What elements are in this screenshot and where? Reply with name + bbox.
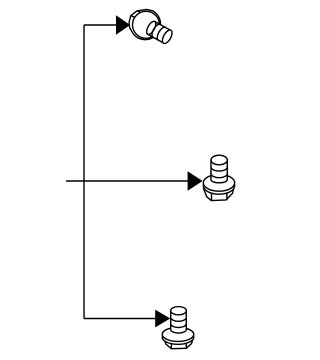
- shaft thread ring 2: [211, 174, 227, 178]
- wire middle branch: [66, 180, 189, 182]
- flange face circle: [133, 11, 160, 38]
- shaft of top bolt: [145, 20, 174, 45]
- shaft body: [211, 160, 227, 180]
- bolt top (angled flange bolt): [129, 9, 174, 45]
- shaft body: [171, 311, 187, 330]
- arrow to middle bolt: [188, 171, 203, 191]
- shaft base arc: [211, 180, 227, 183]
- shaft neck ring: [145, 20, 158, 36]
- shaft body: [148, 21, 171, 43]
- shaft edge lines: [148, 21, 171, 43]
- flange face: [162, 327, 194, 341]
- bolt bottom (upright flange bolt): [162, 307, 194, 349]
- wire vertical trunk: [83, 25, 85, 319]
- shaft thread ring 2: [171, 324, 187, 328]
- shaft thread ring 1: [211, 167, 227, 171]
- shaft edge lines: [171, 311, 187, 330]
- shaft base arc: [171, 330, 187, 334]
- hex facet edge right: [185, 344, 187, 348]
- hex head silhouette with flange rim: [129, 9, 160, 39]
- shaft end face: [160, 28, 174, 45]
- shaft thread ring 2: [155, 26, 165, 40]
- hex body: [164, 339, 192, 348]
- hex facet line lower-left: [131, 16, 135, 18]
- hex facet edge right: [226, 194, 228, 200]
- shaft top face: [211, 155, 227, 165]
- hex facet line upper: [137, 11, 140, 13]
- hex facet edge left: [211, 195, 213, 201]
- flange skirt: [162, 330, 194, 344]
- arrow to bottom bolt: [155, 310, 170, 328]
- wire bottom branch: [84, 318, 157, 320]
- flange face: [203, 174, 234, 191]
- shaft edge lines: [211, 160, 227, 180]
- shaft thread ring 1: [171, 317, 187, 321]
- hex facet edge left: [170, 344, 172, 348]
- flange skirt: [203, 177, 234, 194]
- hex body: [204, 189, 234, 201]
- wire top branch: [84, 24, 118, 26]
- bolt middle (upright flange bolt): [203, 155, 234, 200]
- arrow to top bolt: [116, 15, 130, 34]
- shaft thread ring 1: [150, 23, 160, 37]
- shaft top face: [171, 307, 187, 315]
